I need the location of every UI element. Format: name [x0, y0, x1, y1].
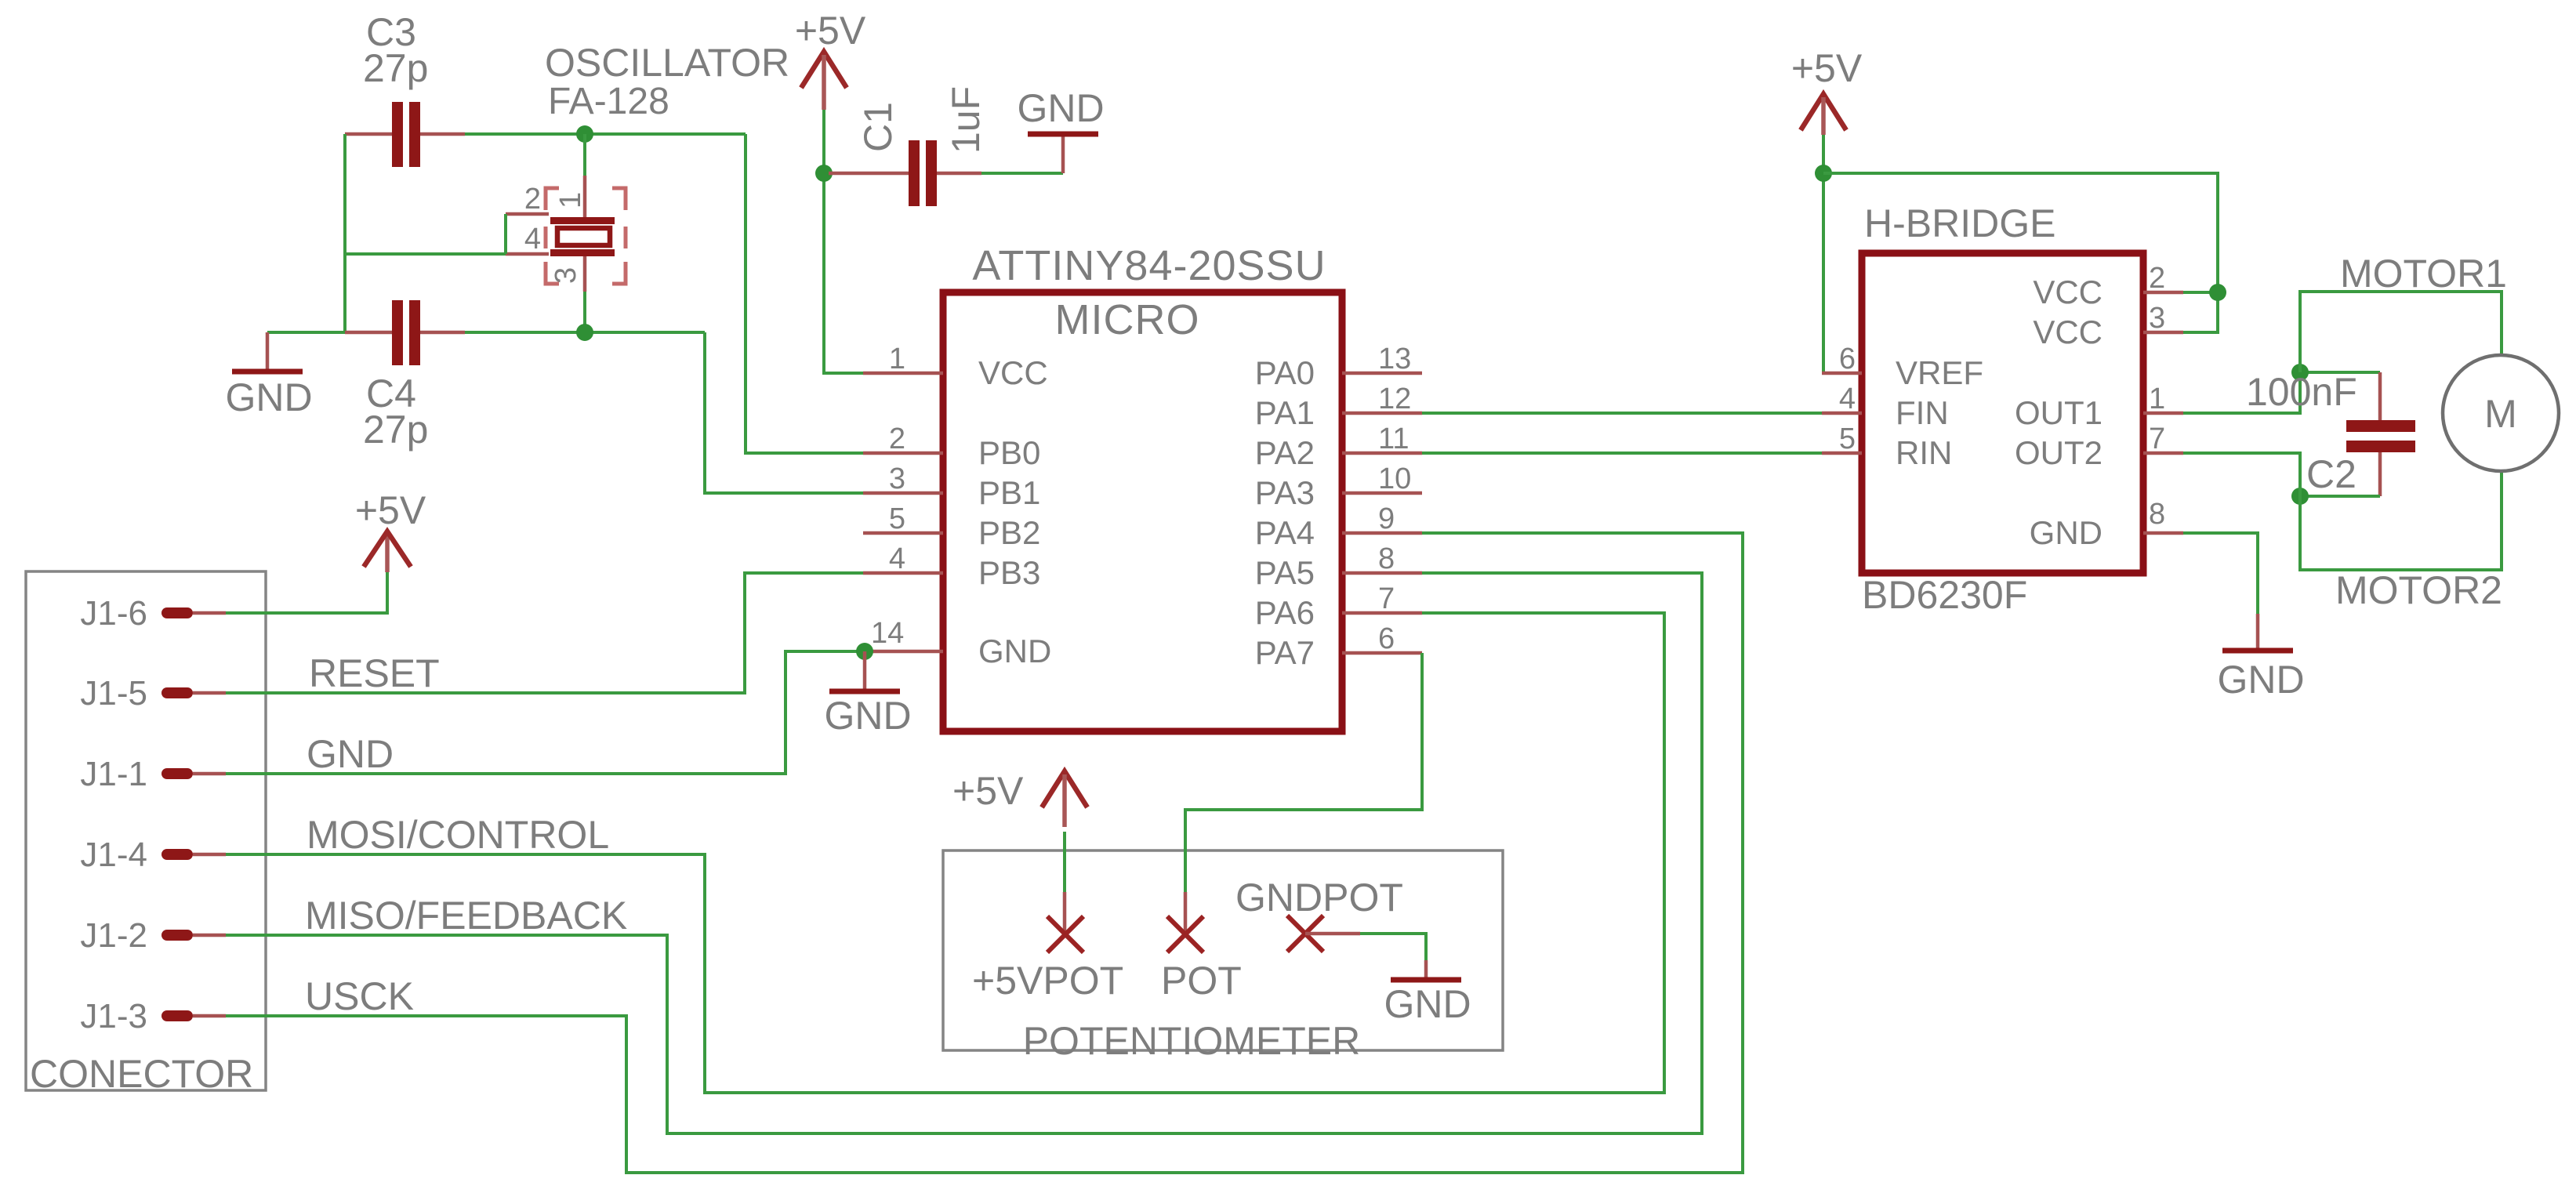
svg-text:+5V: +5V — [952, 769, 1024, 813]
svg-text:PA1: PA1 — [1255, 394, 1315, 431]
pin 2 VCC — [2143, 291, 2183, 295]
svg-text:RIN: RIN — [1896, 434, 1952, 471]
svg-text:+5V: +5V — [795, 9, 866, 53]
pin 5 PB2 — [863, 531, 943, 535]
pin 3 VCC — [2143, 331, 2183, 335]
svg-text:C1: C1 — [856, 102, 900, 152]
svg-text:6: 6 — [1839, 343, 1856, 375]
pin 1 OUT1 — [2143, 412, 2183, 415]
pin 14 GND — [863, 650, 943, 654]
wire OUT1 to motor — [2183, 372, 2380, 413]
wire MOSI/CONTROL (J1-4 to PA6) — [226, 613, 1664, 1093]
ground GND (C1, inverted) — [1017, 86, 1104, 173]
svg-text:J1-2: J1-2 — [80, 916, 147, 955]
svg-text:CONECTOR: CONECTOR — [30, 1052, 253, 1096]
capacitor C2 100nF — [2246, 370, 2415, 496]
svg-text:3: 3 — [550, 267, 582, 284]
pin 11 PA2 — [1342, 451, 1422, 455]
svg-text:ATTINY84-20SSU: ATTINY84-20SSU — [972, 242, 1326, 289]
pin 3 PB1 — [863, 491, 943, 495]
svg-text:OSCILLATOR: OSCILLATOR — [545, 41, 789, 85]
svg-text:VCC: VCC — [978, 354, 1048, 391]
junction — [2209, 284, 2226, 301]
svg-text:PA5: PA5 — [1255, 554, 1315, 591]
svg-text:4: 4 — [1839, 383, 1856, 415]
svg-text:3: 3 — [889, 462, 905, 495]
wire VCC pin2 — [2183, 291, 2218, 294]
svg-text:+5V: +5V — [355, 488, 426, 532]
svg-text:1uF: 1uF — [944, 86, 988, 154]
ground GND (micro) — [824, 651, 911, 738]
wire MISO/FEEDBACK (J1-2 to PA5) — [226, 573, 1702, 1133]
junction — [2291, 488, 2309, 505]
wire pin8 to GND — [2183, 533, 2258, 614]
svg-text:POT: POT — [1161, 959, 1242, 1003]
pin 12 PA1 — [1342, 412, 1422, 415]
svg-text:OUT2: OUT2 — [2015, 434, 2103, 471]
svg-text:8: 8 — [1378, 542, 1395, 575]
junction — [576, 324, 593, 341]
svg-text:4: 4 — [524, 223, 541, 256]
svg-text:13: 13 — [1378, 343, 1411, 375]
svg-text:PB3: PB3 — [978, 554, 1040, 591]
svg-text:POTENTIOMETER: POTENTIOMETER — [1023, 1019, 1361, 1063]
connector J1 box — [26, 571, 266, 1090]
svg-text:VCC: VCC — [2033, 314, 2103, 350]
pin 4 FIN — [1822, 412, 1862, 415]
svg-text:GND: GND — [2217, 658, 2304, 702]
pin 6 VREF — [1822, 372, 1862, 375]
pin 2 PB0 — [863, 451, 943, 455]
svg-text:8: 8 — [2149, 498, 2165, 531]
pin 9 PA4 — [1342, 531, 1422, 535]
svg-text:VCC: VCC — [2033, 274, 2103, 310]
svg-text:11: 11 — [1378, 422, 1409, 455]
svg-text:PA2: PA2 — [1255, 434, 1315, 471]
svg-text:OUT1: OUT1 — [2015, 394, 2103, 431]
wire left rail (C3/C4/GND) — [343, 134, 346, 332]
pin 10 PA3 — [1342, 491, 1422, 495]
IC U2 BD6230F H-bridge — [1862, 253, 2143, 573]
svg-text:27p: 27p — [363, 46, 428, 90]
junction — [576, 125, 593, 143]
svg-text:4: 4 — [889, 542, 905, 575]
svg-text:1: 1 — [2149, 383, 2165, 415]
wire PA1 to FIN — [1422, 412, 1822, 415]
svg-text:GND: GND — [978, 633, 1051, 669]
svg-text:9: 9 — [1378, 502, 1395, 535]
pin GNDPOT — [1235, 876, 1403, 952]
svg-text:5: 5 — [1839, 422, 1856, 455]
svg-text:3: 3 — [2149, 302, 2165, 335]
svg-text:PA4: PA4 — [1255, 514, 1315, 551]
power +5V (C1/VCC) — [795, 9, 866, 110]
IC U1 ATTINY84-20SSU micro — [943, 292, 1342, 731]
pin 5 RIN — [1822, 451, 1862, 455]
svg-text:MOSI/CONTROL: MOSI/CONTROL — [307, 813, 609, 857]
ground GND (H-bridge) — [2217, 614, 2304, 702]
junction — [815, 165, 833, 182]
svg-text:14: 14 — [871, 617, 904, 650]
junction — [1815, 165, 1832, 182]
wire XTAL2 bottom — [267, 331, 345, 334]
svg-text:6: 6 — [1378, 622, 1395, 655]
wire +5V to VCC pins — [1823, 173, 2218, 332]
svg-text:GND: GND — [2030, 514, 2103, 551]
wire GND (J1-1 to micro pin14) — [226, 651, 863, 774]
wire +5V down to VCC — [822, 110, 825, 173]
pin 7 OUT2 — [2143, 451, 2183, 455]
wire USCK (J1-3 to PA4) — [226, 533, 1743, 1173]
svg-text:PB2: PB2 — [978, 514, 1040, 551]
svg-text:MISO/FEEDBACK: MISO/FEEDBACK — [305, 894, 627, 937]
wire to micro PB1 — [705, 332, 863, 493]
svg-text:12: 12 — [1378, 383, 1411, 415]
svg-text:+5VPOT: +5VPOT — [972, 959, 1123, 1003]
svg-text:PB0: PB0 — [978, 434, 1040, 471]
svg-text:PA0: PA0 — [1255, 354, 1315, 391]
svg-text:PB1: PB1 — [978, 474, 1040, 511]
svg-text:1: 1 — [889, 343, 905, 375]
potentiometer box — [943, 850, 1503, 1050]
wire crystal pins 2/4 to rail — [345, 252, 506, 256]
wire +5V to VREF — [1823, 135, 1862, 373]
svg-text:VREF: VREF — [1896, 354, 1983, 391]
power +5V (connector) — [355, 488, 426, 572]
svg-text:GND: GND — [824, 694, 911, 738]
pin 8 PA5 — [1342, 571, 1422, 575]
svg-text:J1-3: J1-3 — [80, 997, 147, 1035]
svg-text:10: 10 — [1378, 462, 1411, 495]
svg-text:USCK: USCK — [305, 974, 414, 1018]
junction pin14 — [856, 643, 873, 660]
svg-text:GND: GND — [307, 732, 394, 776]
svg-text:GND: GND — [225, 375, 312, 419]
capacitor C3 — [345, 10, 465, 167]
svg-text:5: 5 — [889, 502, 905, 535]
ground GND (potentiometer) — [1384, 960, 1471, 1026]
power +5V (potentiometer) — [952, 769, 1087, 827]
capacitor C1 — [829, 86, 988, 206]
power +5V (H-bridge) — [1791, 46, 1863, 135]
wire C1 to GND — [981, 172, 1063, 175]
pin POT — [1161, 892, 1242, 1003]
svg-text:J1-5: J1-5 — [80, 674, 147, 713]
svg-text:MOTOR2: MOTOR2 — [2335, 568, 2502, 612]
svg-text:J1-6: J1-6 — [80, 594, 147, 633]
wire OUT2 / MOTOR2 — [2183, 453, 2502, 570]
pin 1 VCC — [863, 372, 943, 375]
svg-text:27p: 27p — [363, 408, 428, 451]
wire RESET — [226, 573, 863, 693]
svg-text:2: 2 — [2149, 262, 2165, 295]
pin +5VPOT — [972, 892, 1123, 1003]
pin 8 GND — [2143, 531, 2183, 535]
svg-text:+5V: +5V — [1791, 46, 1863, 90]
svg-text:M: M — [2484, 392, 2517, 436]
svg-text:FIN: FIN — [1896, 394, 1949, 431]
svg-text:J1-4: J1-4 — [80, 836, 147, 874]
wire PA7 to POT — [1185, 653, 1422, 892]
svg-text:MICRO: MICRO — [1055, 296, 1200, 343]
pin 7 PA6 — [1342, 611, 1422, 615]
svg-text:PA6: PA6 — [1255, 594, 1315, 631]
pin 4 PB3 — [863, 571, 943, 575]
svg-text:GND: GND — [1017, 86, 1104, 130]
ground GND (oscillator) — [225, 332, 312, 419]
motor M1 — [2443, 355, 2559, 471]
svg-text:RESET: RESET — [309, 651, 440, 695]
svg-text:2: 2 — [889, 422, 905, 455]
crystal Q1 FA-128 — [506, 41, 789, 332]
wire to micro PB0 — [746, 134, 863, 453]
wire GNDPOT to GND — [1360, 934, 1426, 960]
wire XTAL1 top — [465, 132, 746, 136]
capacitor C4 — [345, 300, 465, 451]
svg-text:2: 2 — [524, 183, 541, 216]
svg-text:C2: C2 — [2306, 452, 2356, 496]
svg-text:7: 7 — [2149, 422, 2165, 455]
svg-text:PA3: PA3 — [1255, 474, 1315, 511]
svg-text:100nF: 100nF — [2246, 370, 2357, 414]
svg-text:H-BRIDGE: H-BRIDGE — [1864, 201, 2055, 245]
svg-text:J1-1: J1-1 — [80, 755, 147, 793]
svg-text:PA7: PA7 — [1255, 634, 1315, 671]
wire PA2 to RIN — [1422, 451, 1822, 455]
pin 13 PA0 — [1342, 372, 1422, 375]
wire MOTOR1 — [2300, 292, 2502, 372]
svg-text:7: 7 — [1378, 582, 1395, 615]
junction — [2291, 364, 2309, 381]
wire C2 bottom — [2300, 495, 2380, 498]
crystal dashed outline — [546, 188, 559, 210]
svg-text:1: 1 — [554, 192, 587, 209]
svg-text:GND: GND — [1384, 982, 1471, 1026]
wire +5V to +5VPOT — [1063, 832, 1066, 892]
wire J1-6 to +5V — [226, 572, 387, 613]
svg-text:MOTOR1: MOTOR1 — [2340, 252, 2507, 296]
svg-text:FA-128: FA-128 — [548, 81, 669, 122]
svg-text:BD6230F: BD6230F — [1862, 573, 2027, 617]
pin 6 PA7 — [1342, 651, 1422, 655]
svg-text:GNDPOT: GNDPOT — [1235, 876, 1403, 919]
